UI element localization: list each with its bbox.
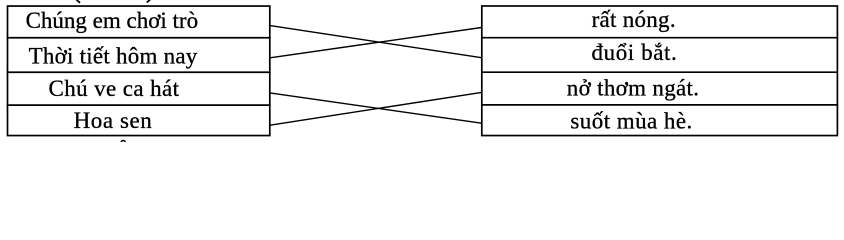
left table row divider 2 [7, 71, 271, 73]
left table outer border [8, 6, 270, 136]
right table outer border [482, 6, 838, 136]
connector line 3: left row3 to right row4 [270, 93, 482, 123]
left table row divider 1 [7, 37, 271, 39]
cut-off open paren tip (top) [76, 0, 80, 3]
cut-off close paren tip (top) [147, 0, 151, 2]
svg-text:Hoa sen: Hoa sen [74, 108, 153, 133]
svg-text:rất nóng.: rất nóng. [592, 7, 676, 32]
svg-text:đuổi bắt.: đuổi bắt. [592, 40, 678, 65]
connector line 1: left row1 to right row2 [270, 26, 482, 58]
connector line 4: left row4 to right row3 [270, 92, 482, 125]
svg-text:Chúng em chơi trò: Chúng em chơi trò [26, 8, 199, 33]
cut-off letter ring (bottom) [121, 141, 125, 145]
connector line 2: left row2 to right row1 [270, 28, 482, 58]
svg-text:Chú ve ca hát: Chú ve ca hát [49, 76, 180, 101]
svg-text:nở thơm ngát.: nở thơm ngát. [567, 76, 699, 101]
right table row divider 3 [481, 104, 838, 106]
svg-text:Thời tiết hôm nay: Thời tiết hôm nay [29, 43, 198, 68]
right table row divider 2 [481, 71, 838, 73]
left table row divider 3 [7, 104, 271, 106]
svg-text:suốt mùa hè.: suốt mùa hè. [570, 109, 692, 134]
right table row divider 1 [481, 37, 838, 39]
